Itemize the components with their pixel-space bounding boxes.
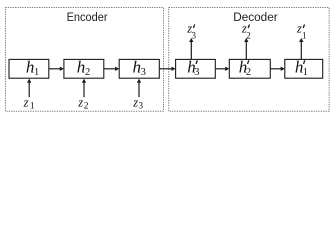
- label z2: [77, 96, 89, 112]
- wire h'1 to z'1: [299, 38, 303, 59]
- svg-text:3: 3: [192, 30, 197, 40]
- svg-text:Encoder: Encoder: [67, 10, 108, 24]
- svg-text:2: 2: [85, 67, 90, 78]
- block h2: [64, 57, 104, 78]
- label z'1: [296, 22, 307, 41]
- label z3: [132, 96, 143, 112]
- svg-text:z: z: [23, 96, 29, 110]
- svg-text:z: z: [132, 96, 138, 110]
- wire z2 to h2: [82, 79, 86, 98]
- svg-text:3: 3: [141, 67, 146, 78]
- block h'2: [229, 57, 270, 78]
- svg-text:2: 2: [246, 67, 251, 78]
- block h'3: [176, 57, 216, 78]
- svg-text:3: 3: [194, 67, 199, 78]
- svg-text:1: 1: [30, 101, 35, 111]
- svg-text:2: 2: [84, 101, 89, 111]
- svg-text:1: 1: [303, 67, 308, 78]
- svg-text:z: z: [77, 96, 83, 110]
- wire h1 to h2: [49, 67, 64, 71]
- svg-text:2: 2: [246, 30, 251, 40]
- svg-text:z: z: [296, 22, 302, 36]
- wire h'3 to h'2: [215, 67, 229, 71]
- svg-text:1: 1: [302, 30, 307, 40]
- wire h3 to h'3: [159, 67, 175, 71]
- encoder dashed boundary: [6, 8, 164, 112]
- svg-text:Decoder: Decoder: [233, 10, 278, 24]
- block h'1: [285, 57, 323, 78]
- wire z1 to h1: [27, 79, 31, 98]
- label z1: [23, 96, 35, 112]
- decoder dashed boundary: [169, 8, 329, 112]
- block h1: [9, 57, 49, 78]
- label z'2: [241, 22, 251, 41]
- wire h'2 to h'1: [270, 67, 285, 71]
- wire h'3 to z'3: [189, 38, 193, 59]
- wire h2 to h3: [104, 67, 119, 71]
- block h3: [119, 57, 159, 78]
- svg-text:3: 3: [138, 101, 143, 111]
- svg-text:1: 1: [34, 67, 39, 78]
- label z'3: [186, 22, 196, 41]
- wire z3 to h3: [137, 79, 141, 98]
- wire h'2 to z'2: [244, 38, 248, 59]
